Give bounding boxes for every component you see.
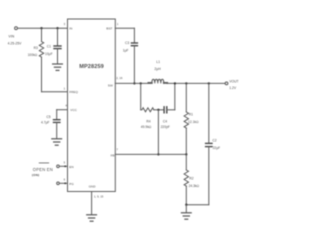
svg-text:IN: IN	[69, 26, 72, 30]
pin FB label	[111, 147, 119, 157]
svg-text:BST: BST	[106, 26, 112, 30]
svg-text:R3: R3	[34, 46, 38, 50]
wire VCC down to C5	[56, 110, 58, 120]
junction dot C2/rail	[208, 82, 210, 84]
pin SW label	[108, 76, 123, 88]
wire to FREQ pin	[42, 91, 68, 93]
svg-text:1µF: 1µF	[123, 49, 129, 53]
wire riser up to VOUT rail	[174, 83, 176, 109]
node EN terminal	[57, 165, 60, 168]
wire GND pin down	[91, 192, 93, 215]
svg-text:4.25-25V: 4.25-25V	[8, 42, 22, 46]
svg-text:10µF: 10µF	[45, 52, 53, 56]
ground under C1	[53, 64, 63, 70]
wire BST down to C3	[133, 28, 135, 43]
svg-text:(ON): (ON)	[32, 173, 40, 177]
junction dot PG	[64, 182, 66, 184]
svg-text:L1: L1	[156, 60, 160, 64]
node VIN terminal	[15, 27, 18, 30]
pin PG label	[64, 177, 75, 186]
pin EN label	[64, 160, 74, 169]
wire BST pin right	[115, 27, 134, 29]
ground IC GND	[87, 215, 97, 221]
node VIN label	[8, 34, 22, 45]
pin VCC label	[65, 104, 77, 113]
svg-text:R4: R4	[146, 120, 150, 124]
pin IN label	[64, 22, 73, 31]
junction dot R4 branch left	[140, 82, 142, 84]
ground divider/C2	[181, 213, 191, 219]
inductor L1 2uH	[148, 82, 151, 84]
svg-text:C2: C2	[212, 138, 216, 142]
capacitor C1 10uF input	[57, 28, 59, 46]
node EN net label	[32, 167, 53, 177]
svg-text:SW: SW	[108, 83, 113, 87]
svg-text:1.2V: 1.2V	[229, 86, 237, 90]
svg-text:R1: R1	[189, 113, 193, 117]
svg-text:220pF: 220pF	[161, 125, 170, 129]
junction dot EN	[64, 165, 66, 167]
svg-text:FB: FB	[111, 153, 115, 157]
wire PG terminal to pin	[59, 182, 67, 184]
svg-text:EN: EN	[69, 165, 73, 169]
svg-text:100kΩ: 100kΩ	[28, 53, 38, 57]
svg-text:2µH: 2µH	[154, 67, 161, 71]
capacitor C3 1uF bootstrap	[131, 42, 137, 44]
pin BST label	[106, 22, 118, 31]
capacitor C2 22uF output	[206, 142, 212, 144]
svg-text:FREQ: FREQ	[69, 90, 78, 94]
wire SW pin to inductor	[115, 82, 150, 84]
svg-text:C5: C5	[46, 115, 50, 119]
pin GND label	[89, 185, 104, 199]
junction dot FB tap	[157, 109, 159, 111]
capacitor C4 220pF	[163, 107, 165, 113]
wire down to R4	[140, 83, 142, 109]
svg-text:C3: C3	[125, 41, 129, 45]
wire R2 to bottom rail	[185, 186, 187, 205]
svg-text:2, 16: 2, 16	[116, 76, 123, 80]
svg-text:1, 9, 15: 1, 9, 15	[94, 194, 104, 198]
junction dot FB line	[157, 153, 159, 155]
svg-text:22µF: 22µF	[213, 146, 221, 150]
wire FB line down to R2	[185, 154, 187, 170]
wire VIN to IN pin	[18, 27, 68, 29]
wire C5 to ground	[56, 123, 58, 138]
wire R1 to FB line	[185, 128, 187, 154]
svg-text:VIN: VIN	[8, 34, 14, 38]
resistor R3 100k (FREQ set)	[39, 42, 43, 58]
junction dot bottom rail	[185, 204, 187, 206]
wire rail down to C2	[208, 83, 210, 143]
svg-text:4.7µF: 4.7µF	[41, 120, 50, 124]
svg-text:VOUT: VOUT	[229, 79, 238, 83]
junction dot riser/rail	[174, 82, 176, 84]
svg-text:49.9kΩ: 49.9kΩ	[141, 125, 152, 129]
junction dot VIN/R3	[40, 27, 42, 29]
wire FB pin to divider	[115, 153, 186, 155]
junction dot FB/R1	[185, 153, 187, 155]
wire FB tap down	[157, 110, 159, 155]
wire inductor to VOUT	[167, 82, 225, 84]
node PG terminal	[57, 182, 60, 185]
svg-text:24.3kΩ: 24.3kΩ	[189, 184, 200, 188]
svg-text:GND: GND	[89, 185, 97, 189]
wire C2 down to bottom rail	[208, 147, 210, 205]
junction dot VIN/C1	[56, 27, 58, 29]
resistor R1 12.1k	[184, 112, 188, 128]
junction dot R1/rail	[185, 82, 187, 84]
svg-text:C1: C1	[47, 45, 51, 49]
wire VCC pin left	[57, 109, 68, 111]
svg-text:R2: R2	[189, 177, 193, 181]
op-amp U1 MP28259 body	[68, 19, 116, 192]
wire VIN down to R3	[41, 28, 43, 41]
wire to ground	[185, 205, 187, 213]
svg-text:12.1kΩ: 12.1kΩ	[188, 120, 199, 124]
node VOUT terminal	[225, 82, 228, 85]
wire bottom rail	[186, 204, 209, 206]
wire R4 to C4	[154, 109, 164, 111]
wire EN terminal to pin	[59, 165, 67, 167]
junction dot C3/SW	[133, 82, 135, 84]
svg-text:C4: C4	[163, 120, 167, 124]
svg-text:OPEN EN: OPEN EN	[33, 167, 53, 172]
capacitor C5 4.7uF	[54, 119, 60, 121]
wire rail down to R1	[185, 83, 187, 112]
wire C3 down to SW rail	[133, 46, 135, 84]
pin FREQ label	[64, 86, 79, 94]
ground under C5	[52, 139, 62, 145]
svg-text:VCC: VCC	[70, 108, 77, 112]
resistor R2 24.3k	[184, 170, 188, 186]
resistor R4 49.9k feedforward	[141, 108, 154, 112]
wire C4 to right riser	[167, 109, 175, 111]
svg-text:PG: PG	[69, 182, 74, 186]
wire R3 down to FREQ	[41, 57, 43, 92]
svg-text:MP28259: MP28259	[79, 64, 104, 70]
